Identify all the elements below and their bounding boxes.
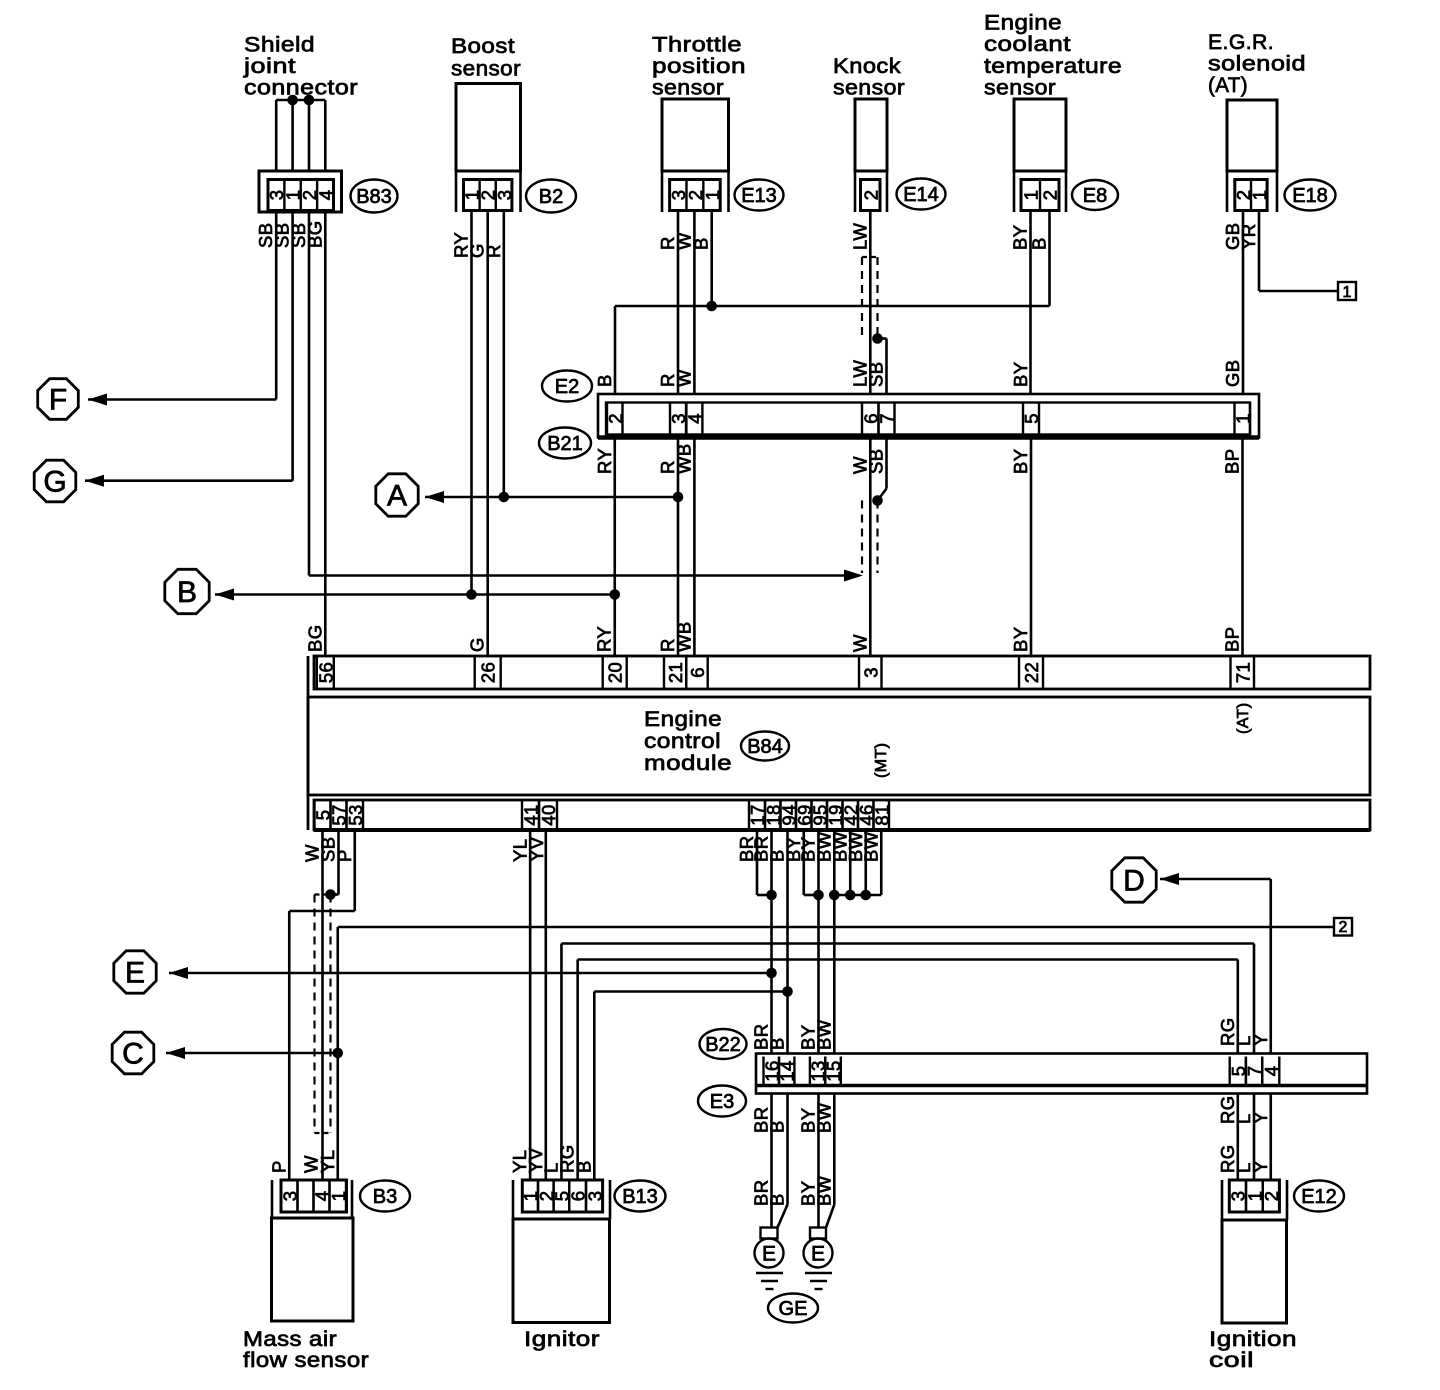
throttle position sensor body bbox=[662, 99, 729, 212]
wire B21 pin2 RY to ECM pin 20 bbox=[613, 438, 616, 657]
svg-text:Ignitor: Ignitor bbox=[524, 1327, 600, 1351]
svg-text:E8: E8 bbox=[1083, 185, 1107, 207]
B84 designator bbox=[741, 732, 789, 761]
svg-text:4: 4 bbox=[684, 413, 705, 424]
svg-text:4: 4 bbox=[315, 190, 336, 201]
wire E3 pin14 B to ground bbox=[778, 1094, 788, 1228]
svg-text:W: W bbox=[673, 369, 694, 387]
svg-text:E: E bbox=[811, 1243, 825, 1266]
svg-text:B3: B3 bbox=[373, 1186, 397, 1208]
mass air flow sensor B3 bbox=[272, 1180, 354, 1321]
svg-text:21: 21 bbox=[665, 662, 686, 683]
svg-text:SB: SB bbox=[866, 362, 887, 387]
E13 designator bbox=[735, 180, 784, 211]
svg-text:YL: YL bbox=[317, 1150, 338, 1173]
svg-text:5: 5 bbox=[1021, 413, 1042, 424]
B13 designator bbox=[615, 1181, 666, 1212]
svg-text:1: 1 bbox=[328, 1191, 349, 1202]
svg-text:D: D bbox=[1123, 865, 1145, 898]
svg-text:B: B bbox=[573, 1160, 594, 1173]
B2 wire colour labels bbox=[451, 232, 504, 258]
B13 wire colour labels bbox=[509, 1144, 594, 1173]
svg-text:P: P bbox=[334, 849, 355, 862]
wire ECM pin69 BY bbox=[804, 830, 819, 895]
svg-text:B: B bbox=[767, 1037, 788, 1050]
svg-text:1: 1 bbox=[1343, 284, 1352, 301]
svg-text:20: 20 bbox=[605, 662, 626, 683]
wire B21 pin7 SB shield drain bbox=[862, 438, 887, 574]
wire ECM pin40 YV to ignitor pin2 bbox=[544, 830, 547, 1180]
svg-text:2: 2 bbox=[1339, 919, 1348, 936]
svg-text:GE: GE bbox=[779, 1298, 808, 1320]
wire E3 pin16 BR to ground bbox=[770, 1094, 773, 1228]
wire ECM pin18 BR to B22 pin16 bbox=[770, 830, 773, 1054]
connector E2/B21 bbox=[598, 394, 1259, 438]
wire ECM pin53 P to mass air flow pin3 bbox=[289, 830, 355, 1180]
wire boost pin2 G to ECM pin 26 bbox=[486, 212, 489, 656]
svg-text:F: F bbox=[49, 384, 67, 417]
svg-text:flow sensor: flow sensor bbox=[243, 1348, 369, 1372]
connector B22/E3 bbox=[756, 1054, 1367, 1094]
mass air flow cable shield bbox=[315, 895, 331, 1134]
svg-text:connector: connector bbox=[244, 76, 358, 100]
svg-text:B: B bbox=[767, 1120, 788, 1133]
svg-text:56: 56 bbox=[315, 662, 336, 683]
wire coolant pin1 BY to E2 pin5 bbox=[1029, 212, 1032, 394]
svg-text:sensor: sensor bbox=[984, 76, 1056, 100]
wire B83 pin3 to connector F bbox=[88, 212, 276, 400]
wire labels below ECM bbox=[302, 831, 882, 862]
ignitor B13 bbox=[513, 1180, 610, 1323]
E.G.R. solenoid body bbox=[1227, 100, 1277, 212]
svg-text:15: 15 bbox=[823, 1060, 844, 1081]
connector D bbox=[1112, 858, 1179, 902]
E14 wire colour label LW bbox=[849, 223, 870, 250]
node D line bbox=[1160, 879, 1271, 1054]
wire ECM pin41 YL to ignitor pin1 bbox=[529, 830, 532, 1180]
svg-text:G: G bbox=[43, 466, 66, 499]
B83 wire colour labels bbox=[255, 220, 325, 248]
(AT) variant label bbox=[1235, 702, 1252, 734]
svg-text:B: B bbox=[594, 374, 615, 387]
wire B83 pin2 shield drain to knock sensor shield bbox=[309, 212, 863, 582]
node E line bbox=[169, 972, 772, 975]
connector C bbox=[112, 1032, 185, 1074]
ECM bottom row pin numbers bbox=[313, 800, 893, 830]
throttle position sensor E13 title bbox=[652, 33, 746, 100]
wire to terminal 2 bbox=[332, 927, 1334, 1180]
wire labels above ECM bbox=[304, 621, 1242, 652]
svg-text:71: 71 bbox=[1232, 662, 1253, 683]
svg-text:Engine: Engine bbox=[644, 707, 722, 731]
wire boost pin1 RY to node B bbox=[470, 212, 473, 595]
wire B21 pin5 BY to ECM pin 22 bbox=[1030, 438, 1033, 657]
ECM top row pin numbers bbox=[315, 656, 1254, 689]
junction dot throttle B on sensor-ground bus bbox=[706, 301, 717, 312]
svg-text:C: C bbox=[122, 1038, 144, 1071]
svg-text:BY: BY bbox=[1010, 449, 1031, 474]
mass air flow sensor title bbox=[243, 1327, 369, 1372]
E18 designator bbox=[1285, 180, 1336, 211]
svg-text:module: module bbox=[644, 751, 732, 775]
node C line bbox=[166, 1052, 338, 1055]
svg-text:2: 2 bbox=[860, 190, 881, 201]
svg-text:Throttle: Throttle bbox=[652, 33, 742, 57]
ground wire labels right bbox=[798, 1175, 835, 1206]
wire B83 pin1 to connector G bbox=[85, 212, 293, 481]
svg-text:GB: GB bbox=[1222, 359, 1243, 387]
wire E3 pin15 BW to ground bbox=[826, 1094, 834, 1228]
svg-text:E.G.R.: E.G.R. bbox=[1208, 30, 1274, 54]
shield joint connector B83 title bbox=[243, 33, 358, 100]
svg-text:position: position bbox=[652, 54, 746, 78]
svg-text:3: 3 bbox=[860, 667, 881, 678]
svg-text:RY: RY bbox=[594, 626, 615, 652]
svg-text:W: W bbox=[849, 634, 870, 652]
wire ECM pin57 SB shield drain bbox=[325, 830, 338, 900]
ignition coil title bbox=[1209, 1327, 1297, 1372]
wire ECM pin5 W to mass air flow pin4 bbox=[321, 830, 324, 1180]
wire ECM pin17 BR bbox=[757, 830, 772, 895]
svg-text:Shield: Shield bbox=[244, 33, 315, 57]
ground wire labels left bbox=[751, 1180, 788, 1207]
svg-text:B21: B21 bbox=[547, 433, 583, 455]
svg-text:BW: BW bbox=[860, 831, 881, 862]
connector A bbox=[376, 474, 444, 516]
svg-text:BW: BW bbox=[813, 1019, 834, 1050]
E.G.R. solenoid E18 title bbox=[1208, 30, 1306, 97]
B2 designator bbox=[526, 180, 576, 213]
knock sensor body bbox=[855, 99, 887, 212]
svg-text:2: 2 bbox=[1261, 1191, 1282, 1202]
svg-text:sensor: sensor bbox=[833, 76, 905, 100]
svg-text:LW: LW bbox=[849, 223, 870, 250]
terminal box 1 bbox=[1338, 282, 1356, 301]
E12 designator bbox=[1294, 1181, 1344, 1212]
svg-text:WB: WB bbox=[673, 443, 694, 474]
svg-text:RY: RY bbox=[594, 448, 615, 474]
svg-text:sensor: sensor bbox=[652, 76, 724, 100]
ECM title bbox=[644, 707, 732, 775]
junction dots BR bbox=[766, 890, 777, 979]
connector E bbox=[114, 951, 188, 993]
svg-text:BP: BP bbox=[1222, 449, 1243, 474]
svg-text:Engine: Engine bbox=[984, 11, 1062, 35]
terminal box 2 bbox=[1334, 918, 1352, 936]
wire ECM pin95 BY to B22 pin13 bbox=[813, 830, 824, 1054]
wire B83 pin4 BG to ECM pin 56 bbox=[324, 212, 327, 656]
svg-text:1: 1 bbox=[1232, 413, 1253, 424]
svg-text:BW: BW bbox=[813, 1175, 834, 1206]
B83 shield bus wire bbox=[276, 100, 325, 171]
ignition coil E12 bbox=[1222, 1180, 1287, 1323]
knock sensor cable shield upper bbox=[862, 257, 878, 339]
svg-text:B2: B2 bbox=[539, 186, 563, 208]
svg-text:A: A bbox=[387, 480, 407, 513]
B83 designator bbox=[351, 180, 398, 213]
junction dots on B83 bus bbox=[287, 95, 314, 106]
E14 designator bbox=[897, 179, 946, 210]
E3 designator bbox=[698, 1086, 746, 1117]
E18 wire colour labels bbox=[1222, 222, 1259, 250]
svg-text:BG: BG bbox=[304, 220, 325, 248]
B3 designator bbox=[360, 1181, 410, 1212]
GE designator bbox=[768, 1294, 818, 1323]
svg-text:B: B bbox=[177, 576, 197, 609]
svg-text:temperature: temperature bbox=[984, 54, 1122, 78]
(MT) variant label bbox=[873, 743, 890, 778]
svg-text:(AT): (AT) bbox=[1235, 702, 1252, 734]
svg-text:E18: E18 bbox=[1292, 185, 1328, 207]
engine control module B84 bbox=[308, 656, 1370, 830]
B21 designator bbox=[539, 428, 591, 459]
svg-text:40: 40 bbox=[538, 804, 559, 825]
wire B21 pin6 W to ECM pin 3 bbox=[869, 438, 872, 657]
wire boost pin3 R to node A bbox=[502, 212, 505, 497]
svg-text:solenoid: solenoid bbox=[1208, 52, 1306, 76]
svg-text:E: E bbox=[125, 957, 145, 990]
wire throttle pin3 R to E2 pin3 bbox=[677, 212, 680, 394]
svg-text:53: 53 bbox=[345, 804, 366, 825]
svg-text:4: 4 bbox=[1261, 1066, 1282, 1077]
svg-text:joint: joint bbox=[243, 54, 296, 78]
svg-text:E2: E2 bbox=[555, 376, 579, 398]
svg-text:BY: BY bbox=[1010, 362, 1031, 387]
svg-text:14: 14 bbox=[777, 1060, 798, 1081]
svg-text:B: B bbox=[767, 1193, 788, 1206]
svg-text:G: G bbox=[467, 637, 488, 652]
svg-text:BW: BW bbox=[813, 1102, 834, 1133]
connector B bbox=[165, 569, 234, 613]
ignitor title bbox=[524, 1327, 600, 1351]
connector B83 bbox=[259, 171, 342, 212]
wire B21 pin3 R to ECM pin 21 bbox=[677, 438, 680, 657]
svg-text:E12: E12 bbox=[1301, 1186, 1337, 1208]
svg-text:SB: SB bbox=[866, 449, 887, 474]
svg-text:(MT): (MT) bbox=[873, 743, 890, 778]
shield drain SB to E2 pin7 bbox=[872, 333, 886, 394]
svg-text:(AT): (AT) bbox=[1208, 73, 1248, 97]
boost sensor B2 title bbox=[451, 34, 521, 81]
wire ignitor pin3 B to ECM pin94 wire bbox=[594, 992, 787, 1181]
svg-text:B22: B22 bbox=[705, 1034, 741, 1056]
svg-text:B84: B84 bbox=[747, 736, 783, 758]
svg-text:81: 81 bbox=[871, 804, 892, 825]
svg-text:WB: WB bbox=[673, 621, 694, 652]
wire coolant pin2 B sensor-ground bus to E2 pin2 bbox=[615, 212, 1050, 394]
svg-text:26: 26 bbox=[478, 662, 499, 683]
svg-text:Y: Y bbox=[1250, 1033, 1271, 1046]
E2 designator bbox=[542, 371, 592, 402]
wires ECM pins 42 46 81 BW common bbox=[829, 830, 881, 900]
knock sensor E14 title bbox=[833, 54, 905, 100]
svg-text:YR: YR bbox=[1238, 224, 1259, 251]
svg-text:2: 2 bbox=[605, 413, 626, 424]
E8 wire colour labels bbox=[1010, 225, 1050, 250]
svg-text:sensor: sensor bbox=[451, 57, 521, 81]
connector G bbox=[34, 460, 104, 502]
svg-text:E14: E14 bbox=[903, 184, 939, 206]
B22 designator bbox=[700, 1029, 747, 1059]
svg-text:22: 22 bbox=[1021, 662, 1042, 683]
E13 wire colour labels bbox=[657, 232, 712, 250]
wire labels below B21 bbox=[594, 443, 1243, 474]
B3 wire colour labels bbox=[268, 1150, 338, 1173]
node B line bbox=[215, 589, 620, 600]
svg-text:control: control bbox=[644, 729, 721, 753]
svg-text:E3: E3 bbox=[710, 1091, 734, 1113]
svg-text:B13: B13 bbox=[622, 1186, 658, 1208]
wire throttle pin2 W to E2 pin4 bbox=[693, 212, 696, 394]
svg-text:7: 7 bbox=[877, 413, 898, 424]
wire B21 pin1 BP to ECM pin 71 bbox=[1241, 438, 1244, 657]
wire ECM pin19 BW to B22 pin15 bbox=[833, 830, 836, 1054]
svg-text:E13: E13 bbox=[741, 185, 777, 207]
svg-text:B83: B83 bbox=[356, 186, 392, 208]
svg-text:BG: BG bbox=[304, 624, 325, 652]
svg-text:1: 1 bbox=[702, 190, 723, 201]
wire B21 pin4 WB to ECM pin 6 bbox=[693, 438, 696, 657]
svg-text:3: 3 bbox=[494, 190, 515, 201]
engine coolant temperature sensor E8 title bbox=[984, 11, 1122, 100]
wire ECM pin94 B to B22 pin14 bbox=[782, 830, 793, 1054]
wire EGR pin1 YR to terminal 1 bbox=[1259, 212, 1338, 291]
svg-text:coil: coil bbox=[1209, 1348, 1254, 1372]
svg-text:1: 1 bbox=[1021, 190, 1042, 201]
wires B22 to ignition coil bbox=[1238, 1094, 1271, 1181]
svg-text:coolant: coolant bbox=[984, 32, 1071, 56]
node A line bbox=[425, 492, 683, 503]
wire ignitor pin6 RG to B22 pin5 bbox=[578, 960, 1238, 1181]
svg-text:6: 6 bbox=[687, 667, 708, 678]
wire EGR pin2 GB to E2 pin1 bbox=[1242, 212, 1245, 394]
svg-text:BP: BP bbox=[1221, 627, 1242, 652]
svg-text:2: 2 bbox=[1040, 190, 1061, 201]
wire ignitor pin5 L to B22 pin7 bbox=[561, 944, 1254, 1181]
svg-text:Knock: Knock bbox=[833, 54, 901, 78]
wire throttle pin1 B to sensor ground node bbox=[710, 212, 713, 306]
wire labels above B22 bbox=[751, 1017, 1271, 1050]
svg-text:Boost: Boost bbox=[451, 34, 515, 58]
wire E3 pin13 BY to ground bbox=[817, 1094, 820, 1228]
ground GE right bbox=[804, 1228, 833, 1290]
wire knock pin2 LW to E2 pin6 bbox=[869, 212, 872, 394]
svg-text:E: E bbox=[762, 1243, 776, 1266]
svg-text:3: 3 bbox=[584, 1191, 605, 1202]
svg-text:P: P bbox=[268, 1160, 289, 1173]
wire labels above E2 bbox=[594, 359, 1243, 387]
svg-text:1: 1 bbox=[1249, 190, 1270, 201]
connector F bbox=[38, 379, 107, 420]
svg-text:BY: BY bbox=[1010, 225, 1031, 250]
E8 designator bbox=[1072, 180, 1118, 210]
svg-text:R: R bbox=[483, 244, 504, 258]
wire labels below E3 bbox=[751, 1095, 1271, 1173]
ground GE left bbox=[755, 1228, 784, 1290]
boost sensor body bbox=[456, 84, 521, 213]
svg-text:BY: BY bbox=[1010, 627, 1031, 652]
engine coolant temperature sensor body bbox=[1014, 99, 1066, 212]
